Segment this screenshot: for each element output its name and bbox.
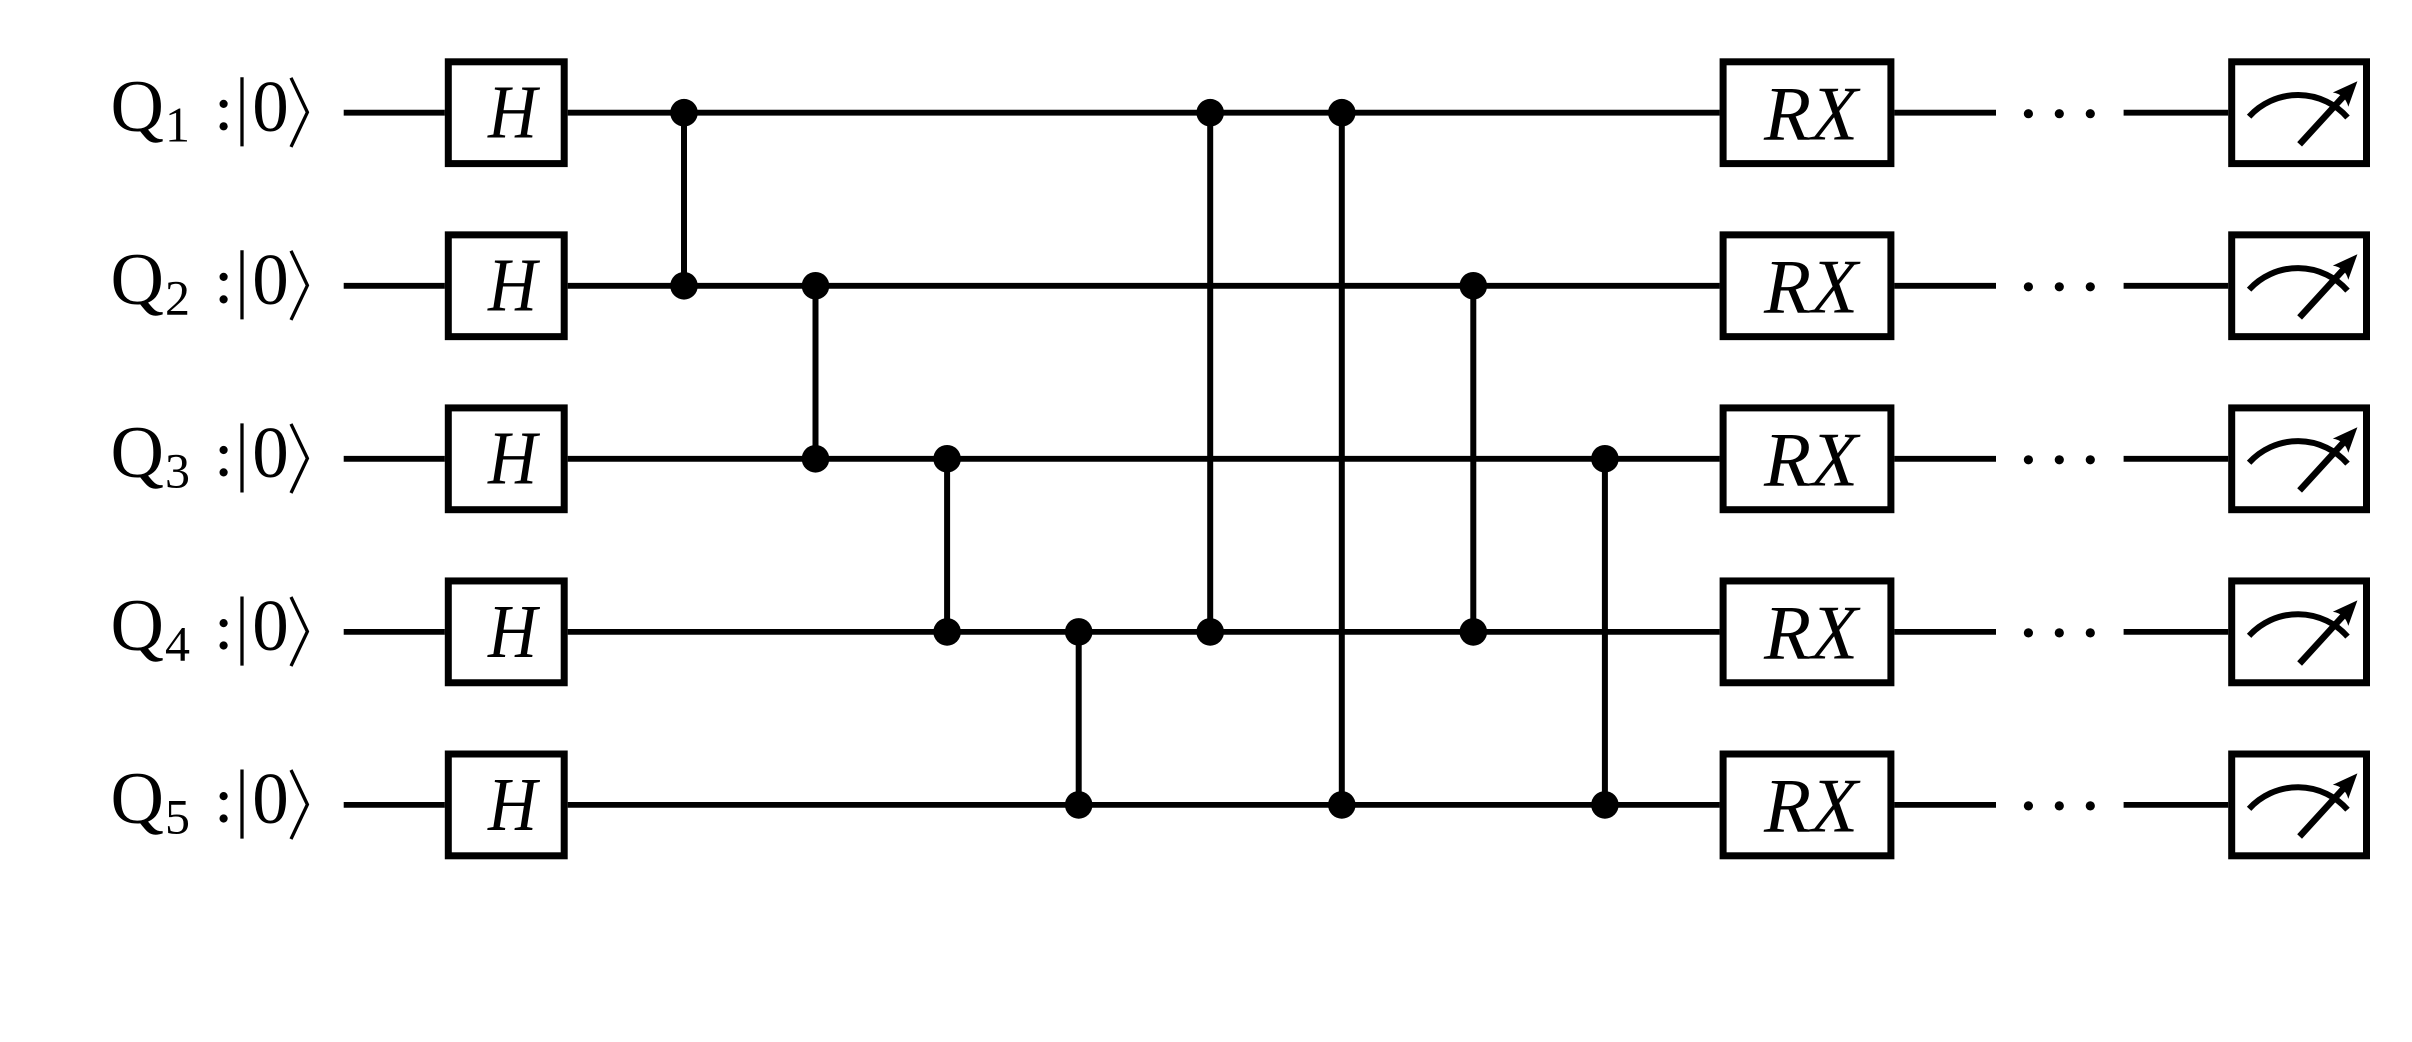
CZ gate CZ8 (Q3-Q5)	[1591, 445, 1619, 819]
node Q3 label "Q3 :|0&gt;"	[111, 412, 308, 499]
svg-text:RX: RX	[1763, 763, 1861, 849]
CZ gate CZ3 (Q3-Q4)	[933, 445, 961, 646]
svg-text:3: 3	[165, 443, 190, 499]
svg-text:H: H	[487, 417, 541, 501]
svg-text:Q: Q	[111, 758, 164, 840]
gate RX on Q3	[1723, 408, 1891, 510]
wire Q2 segment after RX	[1894, 283, 1996, 289]
wire Q5 input stub	[344, 802, 445, 808]
wire Q4 main segment (H to RX)	[568, 629, 1720, 635]
wire Q1 input stub	[344, 110, 445, 116]
svg-text:Q: Q	[111, 66, 164, 148]
svg-text:Q: Q	[111, 585, 164, 667]
wire Q3 segment before meter	[2124, 456, 2229, 462]
ellipsis (continued circuit) on Q4	[2024, 628, 2095, 637]
CZ gate CZ5 (Q1-Q4)	[1196, 99, 1224, 646]
gate RX on Q2	[1723, 235, 1891, 337]
CZ gate CZ4 (Q4-Q5)	[1065, 618, 1093, 819]
measurement meter M1 on Q1	[2232, 62, 2367, 164]
svg-text:0: 0	[252, 758, 289, 839]
svg-text:0: 0	[252, 585, 289, 666]
CZ gate CZ2 (Q2-Q3)	[802, 272, 830, 473]
svg-text:RX: RX	[1763, 590, 1861, 676]
wire Q1 main segment (H to RX)	[568, 110, 1720, 116]
node Q4 label "Q4 :|0&gt;"	[111, 585, 308, 672]
ellipsis (continued circuit) on Q3	[2024, 455, 2095, 464]
ellipsis (continued circuit) on Q5	[2024, 801, 2095, 810]
svg-text:H: H	[487, 763, 541, 847]
gate H on Q1	[448, 62, 564, 164]
wire Q1 segment after RX	[1894, 110, 1996, 116]
wire Q5 main segment (H to RX)	[568, 802, 1720, 808]
svg-text:RX: RX	[1763, 243, 1861, 329]
gate H on Q3	[448, 408, 564, 510]
svg-text:4: 4	[165, 616, 190, 672]
ellipsis (continued circuit) on Q1	[2024, 109, 2095, 118]
wire Q2 main segment (H to RX)	[568, 283, 1720, 289]
node Q5 label "Q5 :|0&gt;"	[111, 758, 308, 845]
wire Q5 segment before meter	[2124, 802, 2229, 808]
measurement meter M3 on Q3	[2232, 408, 2367, 510]
svg-text:Q: Q	[111, 412, 164, 494]
gate RX on Q1	[1723, 62, 1891, 164]
ellipsis (continued circuit) on Q2	[2024, 282, 2095, 291]
wire Q3 input stub	[344, 456, 445, 462]
svg-text:0: 0	[252, 412, 289, 493]
measurement meter M5 on Q5	[2232, 754, 2367, 856]
svg-text:Q: Q	[111, 239, 164, 321]
svg-text:5: 5	[165, 789, 190, 845]
wire Q2 input stub	[344, 283, 445, 289]
CZ gate CZ7 (Q2-Q4)	[1460, 272, 1488, 646]
measurement meter M2 on Q2	[2232, 235, 2367, 337]
gate RX on Q4	[1723, 581, 1891, 683]
wire Q5 segment after RX	[1894, 802, 1996, 808]
gate H on Q5	[448, 754, 564, 856]
CZ gate CZ1 (Q1-Q2)	[670, 99, 698, 300]
svg-text:0: 0	[252, 239, 289, 320]
svg-text:2: 2	[165, 270, 190, 326]
measurement meter M4 on Q4	[2232, 581, 2367, 683]
wire Q4 segment before meter	[2124, 629, 2229, 635]
svg-text:1: 1	[165, 97, 190, 153]
wire Q4 segment after RX	[1894, 629, 1996, 635]
node Q1 label "Q1 :|0&gt;"	[111, 66, 308, 153]
wire Q3 main segment (H to RX)	[568, 456, 1720, 462]
wire Q1 segment before meter	[2124, 110, 2229, 116]
node Q2 label "Q2 :|0&gt;"	[111, 239, 308, 326]
svg-text:H: H	[487, 590, 541, 674]
svg-text:0: 0	[252, 66, 289, 147]
wire Q3 segment after RX	[1894, 456, 1996, 462]
svg-text:RX: RX	[1763, 70, 1861, 156]
gate H on Q2	[448, 235, 564, 337]
svg-text:H: H	[487, 244, 541, 328]
gate H on Q4	[448, 581, 564, 683]
wire Q4 input stub	[344, 629, 445, 635]
wire Q2 segment before meter	[2124, 283, 2229, 289]
svg-text:H: H	[487, 71, 541, 155]
gate RX on Q5	[1723, 754, 1891, 856]
svg-text:RX: RX	[1763, 416, 1861, 502]
CZ gate CZ6 (Q1-Q5)	[1328, 99, 1356, 819]
